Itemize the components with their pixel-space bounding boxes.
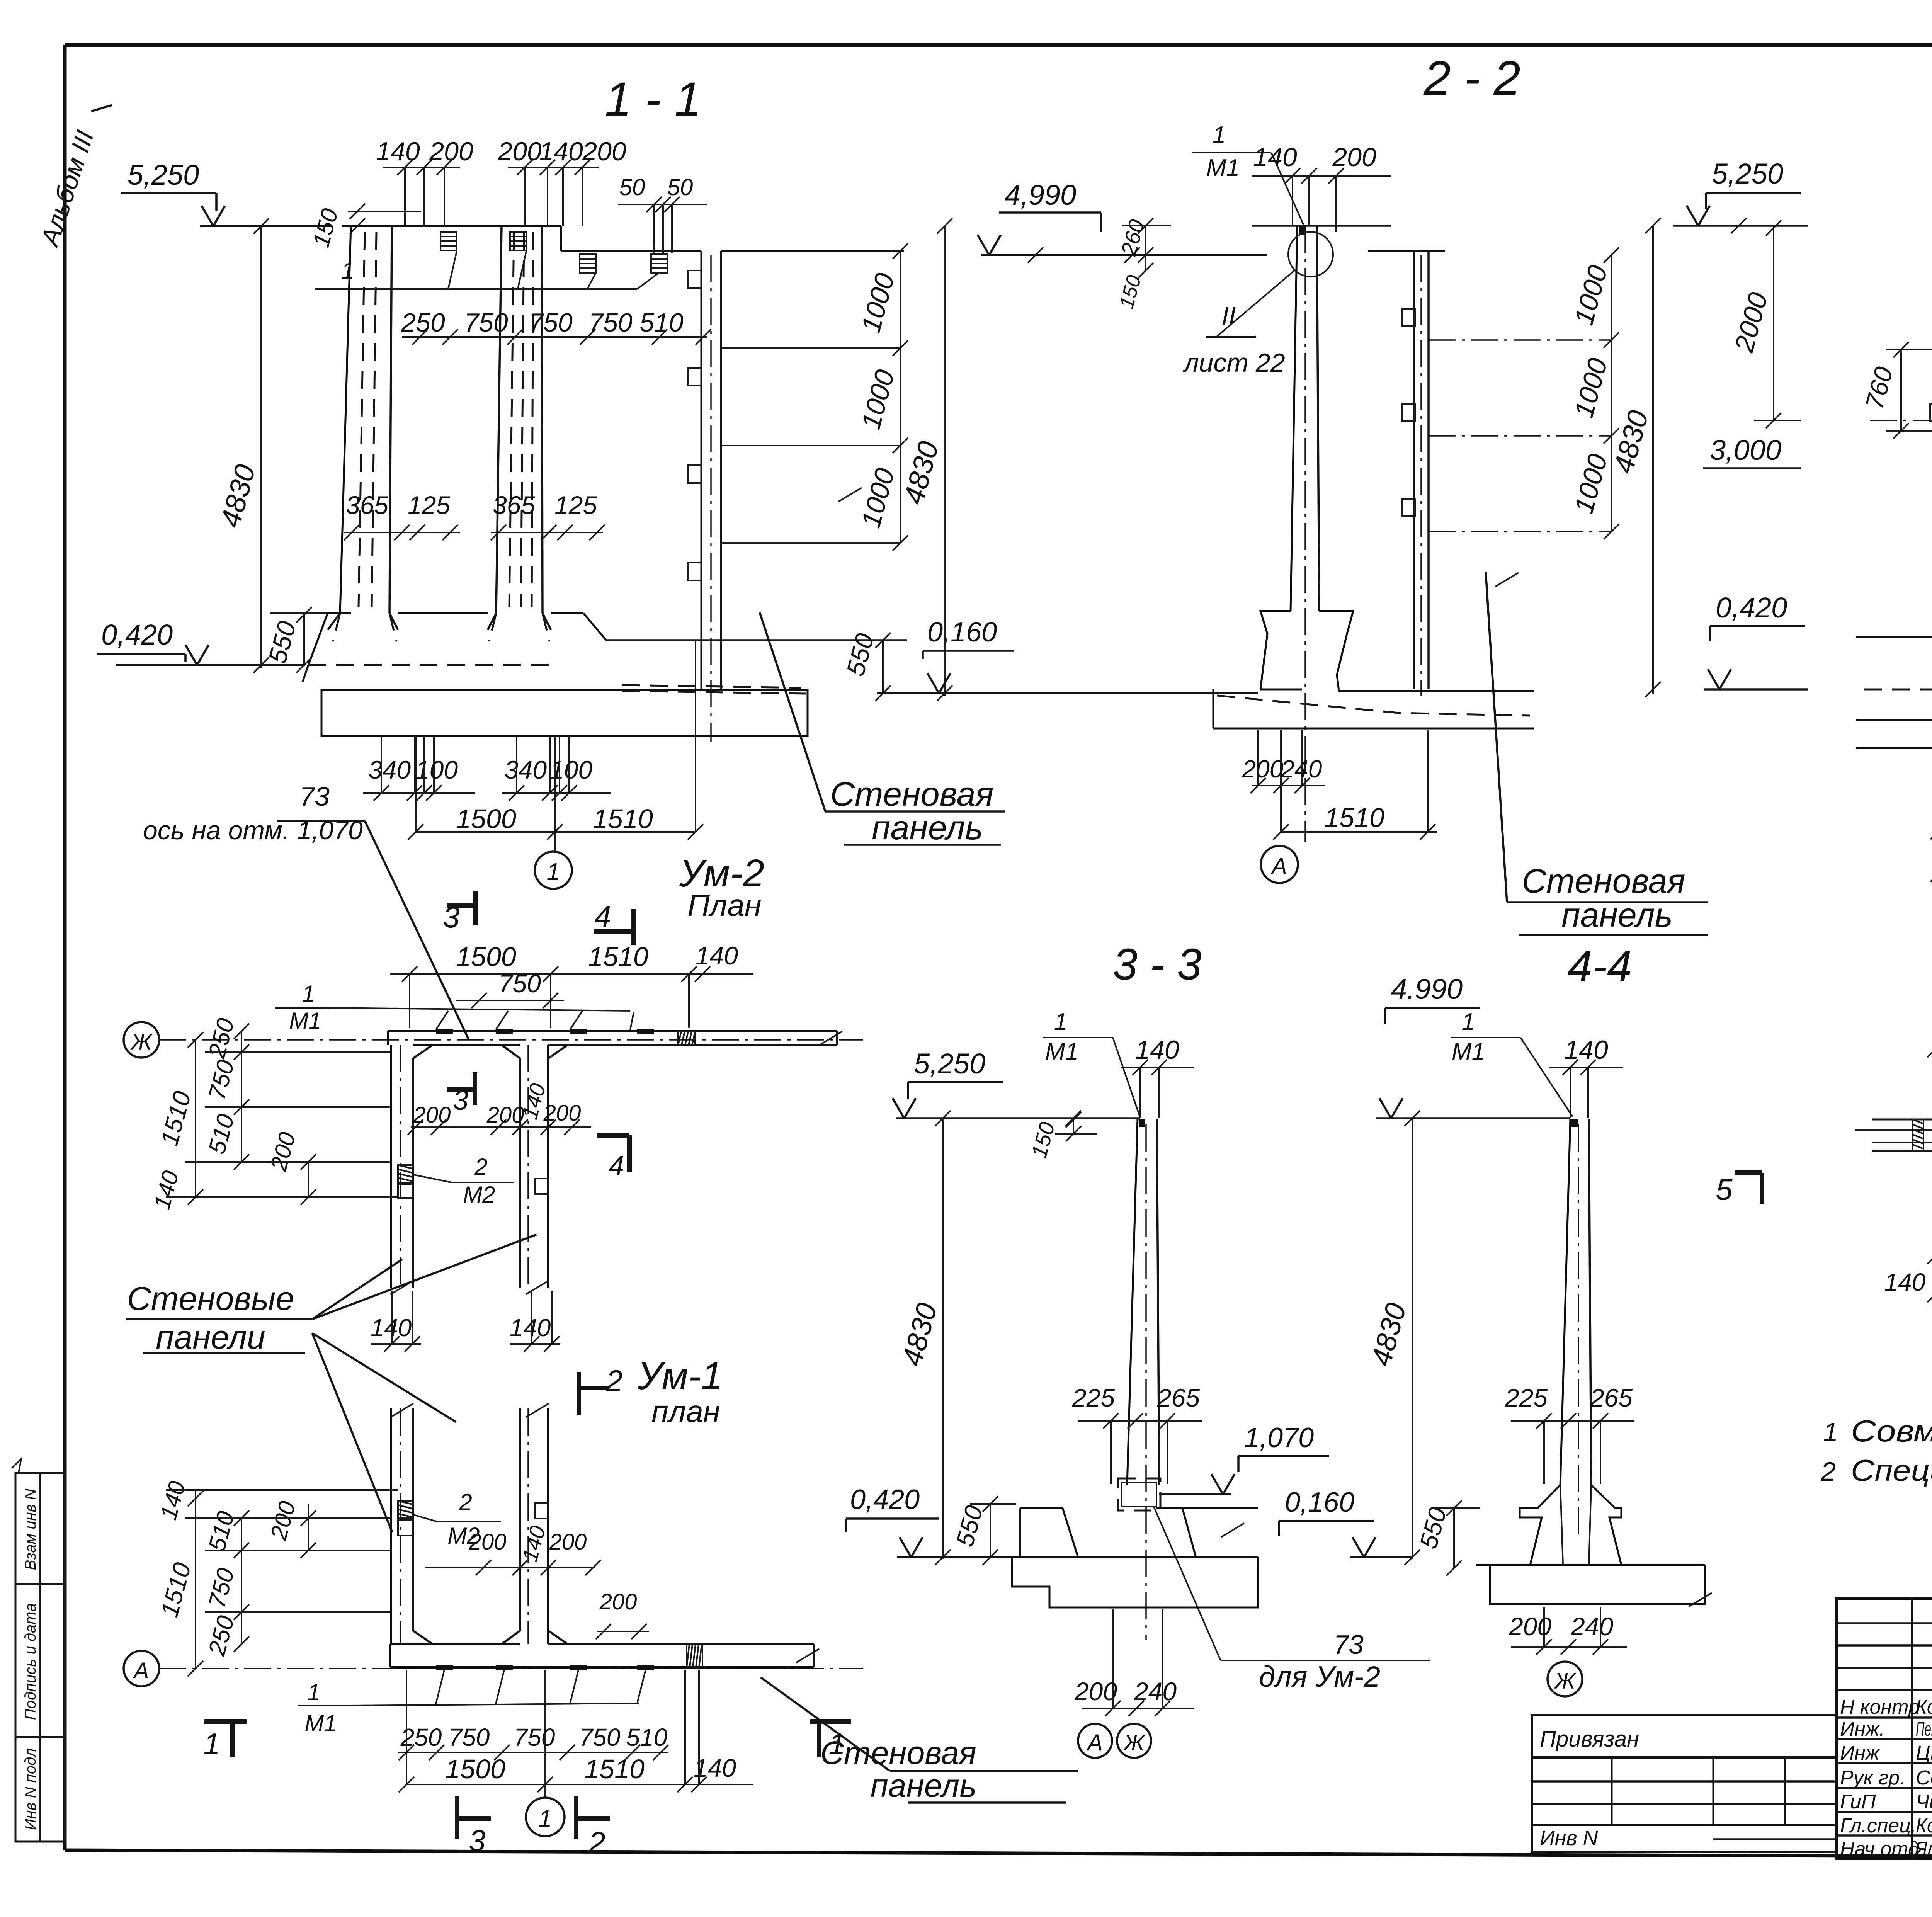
svg-text:340: 340	[368, 755, 411, 784]
grid lines 1000 right side	[721, 243, 908, 551]
svg-text:Инж: Инж	[1840, 1742, 1880, 1764]
svg-text:Петропавловская: Петропавловская	[1916, 1718, 1932, 1740]
svg-text:Подпись и дата: Подпись и дата	[22, 1603, 39, 1720]
bottom dim 1510 of 2-2	[1273, 730, 1437, 840]
label stenovaya panel of 2-2	[1486, 572, 1708, 935]
svg-text:лист 22: лист 22	[1182, 348, 1285, 378]
svg-text:Ж: Ж	[1553, 1669, 1577, 1694]
axis bubbles A Zh below 3-3	[1078, 1724, 1151, 1758]
svg-text:0,160: 0,160	[1285, 1487, 1354, 1518]
bottom dims 200-240 of 3-3	[1074, 1609, 1194, 1716]
svg-text:План: План	[687, 888, 762, 922]
dimension 365-125 pair left	[344, 491, 460, 540]
svg-text:1: 1	[1054, 1009, 1067, 1035]
svg-text:100: 100	[550, 755, 592, 784]
svg-text:1: 1	[341, 258, 354, 284]
callout 1 M1 plan um1	[298, 1670, 646, 1736]
dim 150 of 3-3	[1027, 1112, 1097, 1160]
svg-text:750: 750	[498, 969, 541, 998]
elevation 1.070 of 3-3	[1159, 1422, 1329, 1494]
svg-text:4: 4	[594, 899, 611, 933]
detail circle and leader 2-2	[1182, 232, 1333, 378]
elevation 0.420 of 2-2 right	[1704, 592, 1808, 689]
svg-text:1: 1	[539, 1805, 552, 1832]
svg-text:200: 200	[1332, 143, 1376, 172]
section marks 3 bottom in opening	[447, 1072, 629, 1182]
svg-text:365: 365	[493, 491, 535, 519]
wall top slab 1-1	[342, 226, 904, 251]
dimension 2000 of 2-2	[1729, 220, 1801, 428]
svg-text:750: 750	[449, 1723, 490, 1751]
svg-text:1: 1	[307, 1679, 320, 1705]
svg-text:510: 510	[639, 308, 684, 337]
svg-text:140: 140	[1564, 1035, 1608, 1065]
wall panel right 1-1	[688, 251, 721, 742]
top dimension 140-200 of 2-2	[1252, 143, 1391, 232]
left margin stamp strips	[12, 1459, 65, 1842]
svg-text:4,990: 4,990	[1005, 179, 1076, 211]
svg-text:1510: 1510	[588, 942, 648, 972]
bottom dimension 340-100 right pair	[502, 736, 611, 801]
plan um5 wall band	[1855, 1119, 1932, 1151]
grid lines 1000 of 2-2	[1429, 247, 1619, 587]
elevation mark 0.420 left	[97, 619, 305, 665]
svg-text:Рук гр.: Рук гр.	[1840, 1767, 1905, 1789]
svg-text:140: 140	[510, 1314, 551, 1342]
svg-text:II: II	[1222, 301, 1236, 330]
svg-text:1: 1	[302, 981, 315, 1007]
svg-text:Н контр: Н контр	[1840, 1696, 1920, 1718]
label 73 axis at otm 1.070	[143, 781, 469, 1039]
axis bubble Zh below 4-4	[1548, 1662, 1582, 1696]
dimension 4830 left	[214, 226, 269, 673]
elevation 3.000 label	[1703, 434, 1801, 468]
center axes 5-5	[1870, 344, 1932, 560]
svg-text:265: 265	[1157, 1383, 1200, 1412]
dim 225-265 of 4-4	[1505, 1383, 1634, 1484]
bottom dims 200-240 of 4-4	[1509, 1607, 1627, 1655]
svg-text:панель: панель	[871, 1767, 977, 1804]
svg-text:3: 3	[453, 1085, 468, 1116]
top dim 140 of 4-4	[1549, 1035, 1623, 1118]
svg-text:Семенова: Семенова	[1916, 1767, 1932, 1789]
axis Zh circle and line	[124, 1022, 863, 1058]
notes line 2	[1820, 1453, 1932, 1487]
svg-text:750: 750	[579, 1723, 621, 1751]
bottom dimension 1500-1510	[408, 640, 703, 852]
svg-text:М1: М1	[1206, 155, 1240, 181]
svg-text:200: 200	[429, 137, 473, 166]
dimension 550 left	[263, 607, 348, 673]
svg-text:2 - 2: 2 - 2	[1423, 51, 1520, 105]
svg-text:Стеновая: Стеновая	[1522, 862, 1685, 900]
svg-text:Совместно с данным см. л: Совместно с данным см. л. л. КЖ-16, 29, …	[1851, 1414, 1932, 1448]
svg-text:200: 200	[549, 1529, 587, 1555]
svg-text:2: 2	[459, 1489, 472, 1515]
axis bubble 1 bottom	[526, 1798, 565, 1836]
plan um1 wall band bottom	[390, 1631, 819, 1670]
svg-text:Ж: Ж	[1122, 1730, 1146, 1755]
svg-text:125: 125	[554, 491, 597, 519]
svg-text:1510: 1510	[593, 804, 653, 834]
dimension chain 250-750-750-750-510	[401, 308, 711, 345]
embedded plates top slab with leader 1	[315, 232, 667, 289]
section mark 1 right bottom	[810, 1721, 851, 1761]
side panel left 5-5	[1930, 226, 1932, 757]
axis A circle and line	[124, 1651, 863, 1686]
svg-text:А: А	[1270, 853, 1287, 879]
plan um1 right stub wall	[520, 1403, 549, 1644]
dimension 365-125 pair right	[491, 491, 605, 540]
bottom dimension 340-100 left pair	[363, 736, 475, 801]
dimension 550 and 0.160 right side	[841, 617, 1258, 701]
label Um-2 Plan	[679, 852, 764, 922]
plan um1 left dimension ladder	[155, 1478, 398, 1676]
svg-text:М1: М1	[289, 1008, 321, 1034]
dim 550 of 4-4	[1414, 1500, 1480, 1576]
leader 73 for um2	[1154, 1507, 1430, 1693]
svg-text:750: 750	[588, 308, 633, 337]
svg-text:3,000: 3,000	[1710, 434, 1781, 466]
svg-text:Спецификация элементов см. л: Спецификация элементов см. л. л. КЖ-26, …	[1851, 1453, 1932, 1487]
svg-text:140: 140	[1135, 1035, 1179, 1065]
svg-text:0,420: 0,420	[101, 619, 173, 651]
top dimension chain 140-200-200-140-200	[376, 137, 626, 226]
staffing table grid	[1836, 1599, 1932, 1858]
dimension 4830 left of 3-3	[896, 1118, 951, 1565]
svg-text:М1: М1	[304, 1710, 337, 1736]
plan um2 top dimension chains	[390, 941, 753, 1028]
plan um2 right stub wall	[520, 1045, 549, 1294]
dims 200-140-200 in um1 opening	[425, 1523, 649, 1639]
axis bubble A below 2-2	[1261, 846, 1298, 883]
svg-text:4: 4	[609, 1151, 624, 1182]
svg-text:панель: панель	[872, 808, 983, 847]
svg-text:1,070: 1,070	[1244, 1422, 1314, 1453]
dimension 760 vertical 5-5	[1860, 342, 1932, 439]
mini dimension 50-50	[618, 174, 707, 253]
svg-text:Ж: Ж	[130, 1029, 153, 1055]
svg-text:4.990: 4.990	[1391, 973, 1463, 1005]
dimension 150 top-left	[308, 204, 421, 250]
bottom dim 3020 of 5-5	[1930, 845, 1932, 882]
svg-text:140: 140	[1253, 143, 1297, 172]
svg-text:125: 125	[408, 491, 450, 519]
notes line 1	[1823, 1414, 1932, 1448]
wall column 4-4	[1560, 1119, 1591, 1538]
dimension 4830 of 2-2	[1607, 218, 1661, 697]
svg-text:М2: М2	[463, 1182, 495, 1208]
svg-text:2: 2	[588, 1825, 605, 1859]
svg-text:50: 50	[619, 174, 645, 200]
svg-text:Нач отд: Нач отд	[1840, 1838, 1919, 1860]
svg-text:240: 240	[1570, 1612, 1613, 1641]
svg-text:240: 240	[1281, 755, 1322, 783]
svg-text:0,160: 0,160	[927, 617, 997, 648]
ground lines 5-5	[1856, 637, 1932, 748]
detail box for um2 at base 3-3	[1118, 1478, 1160, 1510]
svg-text:4-4: 4-4	[1568, 942, 1632, 991]
svg-text:5,250: 5,250	[128, 159, 199, 191]
svg-text:510: 510	[626, 1723, 668, 1751]
svg-text:Гл.спец.: Гл.спец.	[1840, 1815, 1917, 1837]
wall panel of 2-2 with tabs	[1368, 251, 1445, 696]
svg-text:Инв N подл: Инв N подл	[22, 1748, 39, 1830]
svg-text:225: 225	[1505, 1383, 1548, 1412]
plan um1 bottom dimension chains	[398, 1670, 753, 1798]
svg-text:5,250: 5,250	[1712, 158, 1783, 190]
dims 140 flanks plan um5	[1884, 1264, 1932, 1296]
svg-text:750: 750	[514, 1723, 555, 1751]
svg-text:200: 200	[543, 1101, 581, 1126]
plan um2 left dimension ladder	[149, 1015, 398, 1212]
svg-text:1500: 1500	[445, 1754, 505, 1784]
section marks 3 and 2 bottom	[457, 1796, 610, 1859]
svg-text:Цветкова: Цветкова	[1916, 1742, 1932, 1764]
svg-text:Козловичер: Козловичер	[1916, 1696, 1932, 1718]
dims 200-140-200 in um2 opening	[408, 1081, 591, 1135]
svg-text:Инв N: Инв N	[1540, 1827, 1599, 1850]
svg-text:140: 140	[539, 137, 583, 166]
svg-text:1510: 1510	[1324, 803, 1384, 833]
svg-text:3: 3	[469, 1823, 485, 1857]
svg-text:200: 200	[1242, 755, 1284, 783]
svg-text:225: 225	[1072, 1383, 1115, 1412]
callout 2 M2 plan um2	[413, 1154, 514, 1208]
svg-text:5: 5	[1716, 1172, 1733, 1206]
svg-text:100: 100	[415, 755, 458, 784]
section 3-3 title	[1113, 940, 1202, 989]
svg-text:200: 200	[497, 137, 542, 166]
callout 1 M1 top of 2-2	[1192, 122, 1304, 226]
album label	[35, 105, 112, 250]
svg-text:Взам инв N: Взам инв N	[22, 1489, 39, 1570]
label stenovaya panel right of 1-1	[760, 612, 1005, 847]
wall column A section 1-1	[328, 226, 398, 630]
svg-text:200: 200	[469, 1529, 507, 1555]
svg-text:2: 2	[605, 1364, 622, 1398]
svg-text:Яльтшуллер: Яльтшуллер	[1915, 1838, 1932, 1860]
svg-text:1: 1	[1462, 1009, 1475, 1035]
svg-text:200: 200	[599, 1589, 637, 1614]
svg-text:Привязан: Привязан	[1540, 1726, 1639, 1752]
svg-text:750: 750	[464, 308, 508, 337]
wall column 3-3	[1127, 1119, 1159, 1507]
section mark 2 middle	[579, 1364, 623, 1415]
svg-text:Стеновая: Стеновая	[830, 775, 993, 813]
bottom dims 200-240 of 2-2	[1242, 730, 1325, 832]
callout 1 M1 of 3-3	[1043, 1009, 1140, 1117]
staffing table names	[1840, 1696, 1932, 1860]
svg-text:50: 50	[667, 174, 693, 200]
section 2-2 title	[1423, 51, 1520, 105]
dimension 4830 left of 4-4	[1365, 1118, 1420, 1565]
svg-text:план: план	[651, 1394, 720, 1429]
dim 225-265 of 3-3	[1072, 1383, 1202, 1484]
svg-text:1510: 1510	[584, 1754, 645, 1784]
svg-text:1: 1	[547, 859, 560, 885]
svg-text:3 - 3: 3 - 3	[1113, 940, 1202, 989]
small dims 260 150 near 2-2	[1115, 217, 1171, 311]
left attachment table	[1532, 1715, 1836, 1852]
dim 1510-1510 plan um5	[1927, 1228, 1932, 1264]
dimension 4830 right of 1-1	[897, 218, 952, 701]
plan um2 wall band	[388, 1029, 842, 1058]
svg-text:140: 140	[1884, 1268, 1926, 1296]
svg-text:0,420: 0,420	[1716, 592, 1787, 624]
section marks 3 and 4 top of plan	[443, 891, 633, 945]
pedestal and footing 2-2	[1213, 611, 1534, 728]
callout 2 M2 plan um1	[413, 1489, 501, 1549]
svg-text:Ум-1: Ум-1	[637, 1354, 723, 1398]
svg-text:140: 140	[694, 1754, 736, 1782]
svg-text:Стеновые: Стеновые	[127, 1280, 294, 1317]
svg-text:панели: панели	[156, 1319, 265, 1356]
elevation 4.990 of 4-4	[1376, 973, 1570, 1126]
title block outer	[1836, 1599, 1932, 1858]
plan um2 left stub wall	[390, 1045, 413, 1294]
label stenovye paneli with leaders	[126, 1235, 536, 1532]
top dim 140 of 3-3	[1121, 1035, 1194, 1118]
label Um-1 plan	[637, 1354, 723, 1429]
svg-text:73: 73	[1333, 1630, 1364, 1660]
svg-text:Козловичер: Козловичер	[1916, 1815, 1932, 1837]
plan um5 dimension chain top	[1927, 1021, 1932, 1119]
pedestal and footing 4-4	[1476, 1485, 1712, 1607]
svg-text:А: А	[1086, 1730, 1103, 1755]
svg-text:для Ум-2: для Ум-2	[1259, 1660, 1380, 1693]
elevation 0.160 of 3-3	[1279, 1487, 1412, 1557]
svg-text:ГиП: ГиП	[1840, 1791, 1876, 1813]
svg-text:265: 265	[1590, 1383, 1633, 1412]
labels 140 under stubs um2	[371, 1291, 560, 1352]
svg-text:140: 140	[376, 137, 420, 166]
svg-text:М1: М1	[1452, 1038, 1485, 1065]
axis bubble 1 below 1-1	[535, 852, 572, 889]
svg-text:1: 1	[1213, 122, 1226, 148]
svg-text:73: 73	[299, 781, 330, 811]
svg-text:2: 2	[1820, 1456, 1836, 1487]
wall column B section 1-1	[488, 226, 551, 630]
wall column 2-2	[1252, 226, 1391, 842]
section 4-4 title	[1568, 942, 1632, 991]
svg-text:340: 340	[504, 755, 547, 784]
elevation 0.420 of 3-3 left	[846, 1484, 939, 1557]
section 1-1 title	[605, 73, 701, 126]
elevation 4.990 with arrow	[978, 179, 1267, 263]
svg-text:140: 140	[696, 941, 738, 970]
svg-text:1: 1	[203, 1727, 220, 1761]
callout 1 M1 of 4-4	[1451, 1009, 1573, 1117]
pedestal and footing 3-3	[897, 1507, 1258, 1640]
plan um1 left stub wall	[390, 1403, 413, 1644]
section marks 5 left and right	[1716, 1169, 1932, 1206]
svg-text:1500: 1500	[456, 942, 516, 972]
svg-text:5,250: 5,250	[914, 1048, 985, 1080]
svg-text:Инж.: Инж.	[1840, 1718, 1885, 1740]
svg-text:1: 1	[1823, 1417, 1838, 1447]
svg-text:3: 3	[443, 900, 459, 934]
svg-text:2: 2	[474, 1154, 487, 1180]
callout 1 M1 plan um2	[275, 981, 634, 1034]
svg-text:1 - 1: 1 - 1	[605, 73, 701, 126]
elevation mark 5.250 left	[121, 159, 332, 234]
dim 3020 plan um5	[1927, 1153, 1932, 1322]
svg-text:365: 365	[346, 491, 388, 519]
svg-text:1500: 1500	[456, 804, 516, 834]
svg-text:Чирков: Чирков	[1916, 1791, 1932, 1813]
pedestal and footing 1-1	[300, 613, 907, 736]
elevation 5.250 of 3-3	[893, 1048, 1140, 1126]
bottom dims 1510-1510 of 5-5	[1930, 750, 1932, 846]
svg-text:0,420: 0,420	[850, 1484, 920, 1515]
svg-text:ось на отм. 1,070: ось на отм. 1,070	[143, 816, 363, 845]
svg-text:А: А	[133, 1658, 149, 1683]
label stenovaya panel bottom	[761, 1677, 1078, 1804]
elevation 5.250 of 2-2	[1673, 158, 1808, 233]
svg-text:750: 750	[529, 308, 573, 337]
svg-text:М1: М1	[1045, 1038, 1078, 1065]
svg-text:1: 1	[828, 1727, 845, 1761]
dim 550 of 3-3	[951, 1496, 1016, 1565]
svg-text:200: 200	[1074, 1677, 1117, 1706]
section mark 1 left bottom	[203, 1721, 247, 1761]
svg-text:200: 200	[1509, 1612, 1551, 1641]
